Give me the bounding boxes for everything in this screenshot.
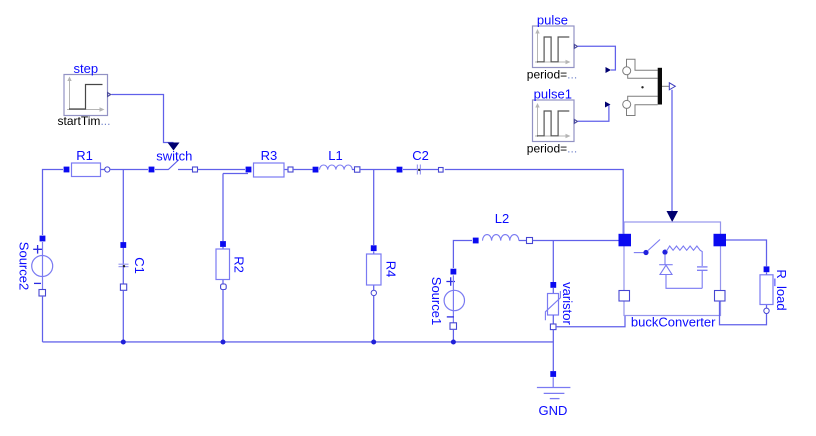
wire L1 to C2 [360, 169, 397, 171]
svg-text:switch: switch [156, 149, 192, 164]
wire R_load bottom to buckConverter [720, 301, 767, 325]
wire switch to R3 [198, 169, 246, 171]
inductor L2 [473, 211, 533, 244]
svg-text:GND: GND [539, 403, 568, 418]
svg-text:R2: R2 [232, 256, 247, 273]
wire buckConverter to R_load top [726, 240, 767, 266]
arrow into buckConverter [667, 211, 679, 222]
svg-text:pulse: pulse [537, 13, 568, 28]
ground GND [537, 371, 571, 418]
junction dot Source1 [451, 340, 456, 345]
resistor R3 [246, 148, 293, 177]
control unit dot [641, 86, 643, 88]
arrow at pulse1 wire end [605, 102, 611, 108]
svg-text:R_load: R_load [774, 269, 789, 310]
capacitor C2 [397, 148, 444, 174]
control unit output port [662, 83, 675, 90]
buck inner diode [659, 255, 702, 289]
junction dot R2 [221, 340, 226, 345]
wire R1 to switch [110, 169, 148, 171]
wire pulse1 to control unit [578, 105, 609, 122]
wire Source2 to bottom rail [42, 296, 44, 342]
voltage source Source2 [16, 236, 52, 296]
svg-text:R4: R4 [384, 261, 399, 278]
buck inner switch [634, 240, 660, 256]
pulse source block pulse [527, 13, 578, 82]
wire step output to switch [112, 95, 174, 143]
wire top rail left [43, 170, 64, 236]
svg-text:L1: L1 [328, 148, 342, 163]
capacitor C1 [119, 170, 148, 343]
control unit key 2 [623, 96, 658, 115]
control unit key 1 [623, 59, 658, 78]
svg-text:varistor: varistor [560, 282, 575, 325]
svg-text:C2: C2 [412, 148, 429, 163]
resistor R4 [367, 170, 399, 343]
svg-text:pulse1: pulse1 [534, 87, 572, 102]
pulse source block pulse1 [527, 87, 578, 156]
buck inner inductor (zigzag) [667, 246, 703, 266]
inductor L1 [313, 148, 360, 172]
varistor varistor [545, 282, 575, 330]
resistor R2 [216, 174, 248, 343]
arrow at pulse wire end [606, 67, 612, 73]
wire varistor to ground [552, 330, 554, 371]
resistor R1 [64, 148, 110, 176]
svg-text:buckConverter: buckConverter [631, 315, 716, 330]
wire bottom rail [43, 341, 554, 343]
wire control unit to buckConverter [671, 90, 673, 212]
svg-text:Source1: Source1 [429, 277, 444, 325]
svg-text:R1: R1 [76, 148, 93, 163]
wire C2 to buckConverter top-left pin [445, 170, 623, 234]
wire R3 to L1 [293, 169, 313, 171]
svg-text:R3: R3 [261, 148, 278, 163]
converter buckConverter [619, 222, 727, 330]
wire L2 to Source1 [453, 241, 472, 269]
svg-text:period=...: period=... [527, 142, 577, 156]
wire pulse to control unit [578, 46, 615, 70]
svg-text:startTim...: startTim... [58, 114, 111, 128]
svg-text:step: step [74, 61, 99, 76]
svg-text:Source2: Source2 [16, 242, 31, 290]
junction dot R4 [371, 340, 376, 345]
svg-text:period=...: period=... [527, 68, 577, 82]
step source block step [58, 61, 111, 128]
arrow into switch [168, 143, 180, 151]
wire varistor column top [552, 241, 554, 283]
control unit bar [658, 68, 662, 105]
junction dot C1 [121, 340, 126, 345]
wire varistor to buckConverter bottom-left pin [556, 301, 625, 327]
buck inner capacitor [697, 267, 708, 288]
wire Source1 to bottom rail [452, 329, 454, 342]
svg-text:L2: L2 [495, 211, 509, 226]
svg-text:C1: C1 [132, 257, 147, 274]
voltage source Source1 [429, 269, 464, 330]
switch switch [149, 149, 198, 173]
wire L2 to buckConverter [533, 240, 619, 242]
buck inner node dot [662, 250, 667, 255]
resistor R_load [760, 266, 789, 313]
